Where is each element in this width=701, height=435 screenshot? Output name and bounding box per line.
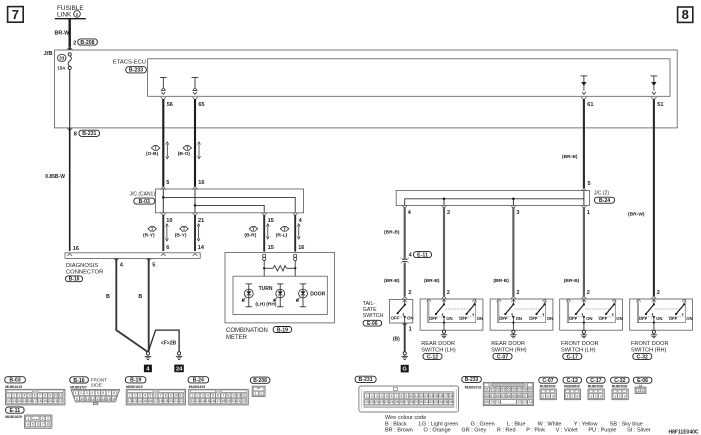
- svg-text:ETACS-ECU: ETACS-ECU: [113, 60, 146, 66]
- svg-text:19: 19: [226, 399, 230, 403]
- svg-text:MU803716: MU803716: [465, 385, 482, 389]
- svg-text:(R-L): (R-L): [276, 233, 288, 239]
- rear door switch LH caption C-12: [421, 341, 456, 360]
- svg-text:2: 2: [371, 394, 373, 398]
- svg-text:67: 67: [523, 394, 527, 398]
- svg-text:16: 16: [298, 245, 304, 251]
- svg-text:9: 9: [233, 394, 235, 398]
- meter pin 16 socket: [294, 254, 297, 257]
- svg-text:33: 33: [59, 56, 65, 62]
- svg-text:REAR DOOR: REAR DOOR: [491, 341, 525, 347]
- svg-text:(B-O): (B-O): [178, 151, 191, 157]
- svg-text:8: 8: [401, 394, 403, 398]
- terminal chevron at J/B entry: [67, 47, 73, 50]
- svg-text:ON: ON: [616, 316, 622, 321]
- svg-text:COMBINATION: COMBINATION: [226, 328, 268, 334]
- diagnosis connector box B-16: [65, 253, 200, 283]
- internal wire pin5-pin10: [162, 189, 164, 213]
- svg-text:20: 20: [370, 400, 374, 404]
- svg-text:BR : Brown O : Orange: BR : Brown O : Orange GR : Grey R : Red …: [385, 428, 651, 434]
- svg-text:15: 15: [434, 394, 438, 398]
- svg-text:B: B: [138, 294, 142, 300]
- svg-text:2: 2: [42, 417, 44, 421]
- svg-text:10: 10: [53, 394, 57, 398]
- wire (BR-B) J/C(2) pin1 to front door switch LH: [564, 207, 584, 296]
- svg-text:10: 10: [237, 394, 241, 398]
- svg-text:21: 21: [375, 400, 379, 404]
- ETACS pin 65 terminal: [192, 97, 204, 108]
- svg-text:10: 10: [409, 394, 413, 398]
- svg-text:11: 11: [414, 394, 418, 398]
- svg-text:13: 13: [12, 399, 16, 403]
- arrow beside wire 15: [267, 226, 269, 237]
- svg-text:68: 68: [529, 394, 533, 398]
- svg-text:13: 13: [133, 399, 137, 403]
- svg-text:C-12: C-12: [427, 354, 438, 360]
- svg-text:13: 13: [424, 394, 428, 398]
- svg-text:1: 1: [542, 394, 544, 398]
- wire (BR-B) E-11 to tailgate switch pin 2: [384, 263, 405, 297]
- svg-text:3: 3: [376, 394, 378, 398]
- svg-text:11: 11: [242, 394, 246, 398]
- svg-text:(B-Y): (B-Y): [175, 233, 187, 239]
- svg-text:70: 70: [490, 400, 494, 404]
- svg-text:72: 72: [517, 400, 521, 404]
- svg-text:73: 73: [523, 400, 527, 404]
- svg-text:16: 16: [211, 399, 215, 403]
- svg-text:FRONT DOOR: FRONT DOOR: [561, 341, 599, 347]
- svg-text:34: 34: [439, 400, 443, 404]
- svg-text:ON: ON: [586, 316, 592, 321]
- svg-text:3: 3: [516, 210, 519, 216]
- svg-text:OFF: OFF: [529, 316, 538, 321]
- svg-text:1: 1: [409, 326, 412, 332]
- svg-text:B-03: B-03: [139, 199, 150, 205]
- svg-text:MU801629: MU801629: [5, 415, 22, 419]
- ETACS internal diode symbol above pin 51: [651, 76, 658, 95]
- svg-text:C-17: C-17: [567, 354, 578, 360]
- twisted symbol (R-Y): [143, 226, 156, 238]
- svg-text:8: 8: [113, 391, 115, 395]
- svg-text:7: 7: [396, 394, 398, 398]
- svg-text:OFF: OFF: [391, 316, 400, 321]
- svg-text:2: 2: [260, 392, 262, 396]
- svg-text:53: 53: [496, 387, 500, 391]
- svg-text:1: 1: [129, 394, 131, 398]
- svg-text:32: 32: [429, 400, 433, 404]
- rear door switch RH box: [490, 296, 553, 330]
- svg-text:18: 18: [38, 399, 42, 403]
- svg-text:(BR-B): (BR-B): [562, 154, 578, 160]
- svg-text:57: 57: [518, 387, 522, 391]
- svg-text:14: 14: [429, 394, 433, 398]
- svg-text:(BR-B): (BR-B): [384, 229, 400, 235]
- svg-text:18: 18: [221, 399, 225, 403]
- svg-text:12: 12: [190, 399, 194, 403]
- svg-text:T: T: [186, 146, 189, 151]
- svg-text:66: 66: [518, 394, 522, 398]
- svg-text:31: 31: [424, 400, 428, 404]
- svg-text:14: 14: [101, 397, 105, 401]
- svg-text:19: 19: [43, 399, 47, 403]
- svg-text:52: 52: [490, 387, 494, 391]
- svg-text:19: 19: [365, 400, 369, 404]
- svg-text:3: 3: [139, 394, 141, 398]
- svg-text:B-19: B-19: [130, 378, 141, 384]
- svg-text:SWITCH (RH): SWITCH (RH): [491, 348, 527, 354]
- svg-text:B-233: B-233: [129, 68, 143, 74]
- svg-text:3: 3: [576, 394, 578, 398]
- svg-text:(BR-B): (BR-B): [564, 278, 580, 284]
- svg-text:17: 17: [33, 399, 37, 403]
- svg-text:MU804539: MU804539: [612, 385, 628, 389]
- svg-text:16: 16: [73, 246, 79, 252]
- svg-text:LINK: LINK: [57, 12, 72, 19]
- wire (BR-B) from ETACS pin 61 to J/C(2) pin 5: [562, 99, 584, 188]
- svg-text:4: 4: [23, 394, 25, 398]
- svg-text:61: 61: [587, 102, 593, 108]
- svg-text:14: 14: [17, 399, 21, 403]
- svg-text:6: 6: [166, 245, 169, 251]
- svg-text:7: 7: [160, 394, 162, 398]
- CAN bus line 1 with junction dot: [162, 196, 295, 213]
- wire (B-R) J/C pin15 to combination meter pin 15: [263, 215, 265, 252]
- svg-text:B-03: B-03: [9, 378, 20, 384]
- combination meter caption and B-19 tag: [226, 327, 292, 341]
- ETACS internal output symbol above pin 56: [160, 77, 167, 94]
- svg-text:2: 2: [595, 394, 597, 398]
- turn indicator LED (RH): [274, 284, 285, 307]
- svg-text:T: T: [151, 226, 154, 231]
- svg-text:4: 4: [381, 394, 383, 398]
- svg-text:15: 15: [107, 397, 111, 401]
- svg-text:C-07: C-07: [542, 378, 553, 384]
- terminal chevron at J/B exit pin 8: [67, 128, 73, 131]
- tailgate pin 1 exit: [402, 323, 411, 332]
- svg-text:64: 64: [507, 394, 511, 398]
- wire 0.85B-W from J/B to diagnosis connector pin 16: [45, 128, 69, 251]
- svg-text:MU804539: MU804539: [588, 385, 604, 389]
- svg-text:71: 71: [496, 400, 500, 404]
- svg-text:5: 5: [97, 391, 99, 395]
- svg-text:MU803707: MU803707: [70, 386, 87, 390]
- svg-text:23: 23: [385, 400, 389, 404]
- junction connector J/C(CAN1) box B-03: [129, 189, 303, 213]
- svg-text:MU801615: MU801615: [5, 385, 22, 389]
- svg-text:51: 51: [657, 102, 663, 108]
- svg-text:B-24: B-24: [599, 198, 610, 204]
- svg-text:10: 10: [80, 397, 84, 401]
- svg-text:7: 7: [12, 7, 19, 22]
- svg-text:2: 2: [516, 290, 519, 296]
- svg-text:SWITCH (LH): SWITCH (LH): [561, 348, 596, 354]
- svg-text:11: 11: [179, 394, 183, 398]
- svg-text:E-11: E-11: [417, 252, 428, 258]
- wire (BR-W) from ETACS pin 51 to front door switch RH: [628, 99, 654, 296]
- svg-text:5: 5: [29, 394, 31, 398]
- ETACS pin 51 terminal: [651, 97, 663, 108]
- svg-text:7: 7: [39, 394, 41, 398]
- svg-text:J/B: J/B: [44, 51, 53, 57]
- svg-text:17: 17: [153, 399, 157, 403]
- wire <F>2B to ground 24: [149, 330, 180, 352]
- svg-text:B-208: B-208: [80, 40, 94, 46]
- svg-text:25: 25: [395, 400, 399, 404]
- rear door switch RH caption C-07: [491, 341, 527, 360]
- svg-text:16: 16: [198, 180, 204, 186]
- ETACS pin 56 terminal: [161, 97, 173, 108]
- svg-text:2: 2: [447, 290, 450, 296]
- connector diagram B-208: [250, 377, 270, 397]
- svg-text:14: 14: [198, 245, 205, 251]
- wire (BR-B) J/C(2) pin4 to E-11: [384, 207, 405, 259]
- svg-text:E-06: E-06: [367, 321, 378, 327]
- svg-text:1: 1: [587, 210, 590, 216]
- svg-text:B-19: B-19: [277, 327, 288, 333]
- svg-text:17: 17: [444, 394, 448, 398]
- svg-text:15: 15: [268, 218, 274, 224]
- meter internal wires: [263, 261, 265, 277]
- svg-text:<F>2B: <F>2B: [161, 340, 177, 346]
- svg-text:60: 60: [485, 394, 489, 398]
- svg-text:2: 2: [642, 389, 644, 393]
- svg-text:1: 1: [590, 394, 592, 398]
- svg-text:20: 20: [48, 399, 52, 403]
- ETACS internal diode symbol above pin 61: [581, 76, 588, 95]
- direction arrow beside wire 65: [198, 144, 200, 156]
- svg-text:OFF: OFF: [499, 316, 508, 321]
- svg-text:24: 24: [390, 400, 394, 404]
- ETACS internal output symbol above pin 65: [192, 77, 199, 94]
- svg-text:13: 13: [195, 399, 199, 403]
- turn indicator LED (LH): [242, 284, 253, 307]
- wire B from diagnosis pin 5 to ground: [138, 258, 148, 351]
- svg-text:Wire colour code: Wire colour code: [385, 415, 426, 421]
- svg-text:DIAGNOSIS: DIAGNOSIS: [66, 263, 98, 269]
- svg-text:H8F11E040C: H8F11E040C: [668, 429, 698, 435]
- svg-text:T: T: [252, 226, 255, 231]
- svg-text:21: 21: [53, 399, 57, 403]
- svg-text:2: 2: [134, 394, 136, 398]
- svg-text:MU804539: MU804539: [540, 385, 556, 389]
- svg-text:5: 5: [32, 422, 34, 426]
- svg-text:(B-R): (B-R): [244, 233, 256, 239]
- svg-text:MU801615: MU801615: [189, 385, 206, 389]
- front door switch RH ground: [652, 330, 655, 333]
- svg-text:14: 14: [201, 399, 205, 403]
- svg-text:12: 12: [419, 394, 423, 398]
- svg-text:8: 8: [44, 394, 46, 398]
- svg-text:TURN: TURN: [259, 286, 273, 292]
- connector diagram C-12: [563, 377, 582, 400]
- arrow beside wire 4: [298, 226, 300, 237]
- svg-text:12: 12: [7, 399, 11, 403]
- svg-text:T: T: [154, 146, 157, 151]
- twisted symbol (B-R): [244, 226, 257, 238]
- svg-text:63: 63: [501, 394, 505, 398]
- svg-text:21: 21: [198, 218, 204, 224]
- svg-text:8: 8: [47, 422, 49, 426]
- svg-text:18: 18: [449, 394, 453, 398]
- svg-text:FRONT DOOR: FRONT DOOR: [631, 341, 669, 347]
- svg-text:6: 6: [391, 394, 393, 398]
- combination meter outer box: [225, 252, 334, 323]
- svg-text:4: 4: [91, 391, 93, 395]
- svg-text:15A: 15A: [57, 66, 66, 71]
- svg-text:18: 18: [159, 399, 163, 403]
- inline connector E-11 pin 4: [401, 252, 432, 264]
- svg-text:(LH) (RH): (LH) (RH): [255, 301, 276, 307]
- svg-text:20: 20: [169, 399, 173, 403]
- svg-text:SIDE: SIDE: [91, 383, 102, 389]
- ETACS pin 61 terminal: [581, 97, 593, 108]
- svg-text:16: 16: [112, 397, 116, 401]
- front door switch LH ground: [582, 330, 585, 333]
- entry chevron J/C(2) pin 5: [582, 188, 587, 191]
- svg-text:13: 13: [96, 397, 100, 401]
- fuse 33 15A: [57, 53, 71, 71]
- tailgate switch box E-06: [389, 297, 413, 323]
- svg-text:24: 24: [176, 366, 183, 372]
- svg-text:(BR-B): (BR-B): [424, 278, 440, 284]
- wire BR-W from fusible link to J/B: [55, 19, 71, 50]
- svg-text:ON: ON: [477, 316, 483, 321]
- svg-text:3: 3: [552, 394, 554, 398]
- svg-text:7: 7: [108, 391, 110, 395]
- svg-text:ON: ON: [407, 316, 413, 321]
- svg-text:62: 62: [496, 394, 500, 398]
- door indicator LED: [296, 284, 307, 307]
- svg-text:REAR DOOR: REAR DOOR: [421, 341, 455, 347]
- svg-text:ON: ON: [656, 316, 662, 321]
- svg-text:E-06: E-06: [637, 378, 648, 384]
- svg-text:11: 11: [59, 394, 63, 398]
- svg-text:16: 16: [148, 399, 152, 403]
- svg-text:9: 9: [76, 397, 78, 401]
- meter pin 15 socket: [263, 254, 266, 257]
- svg-text:2: 2: [408, 290, 411, 296]
- svg-text:7: 7: [42, 422, 44, 426]
- exit chevrons below J/C(2): [402, 206, 407, 209]
- svg-text:B-231: B-231: [359, 377, 373, 383]
- svg-text:22: 22: [380, 400, 384, 404]
- svg-text:36: 36: [449, 400, 453, 404]
- svg-text:J/C (2): J/C (2): [594, 191, 609, 197]
- front door switch RH caption C-32: [631, 341, 669, 360]
- wire from fuse to J/B bottom: [69, 70, 71, 128]
- svg-text:3: 3: [202, 394, 204, 398]
- twisted symbol (B-Y): [175, 226, 188, 238]
- svg-text:56: 56: [512, 387, 516, 391]
- svg-text:3: 3: [18, 394, 20, 398]
- connector diagram B-233: [462, 376, 534, 405]
- twisted symbol (R-L): [276, 226, 289, 238]
- svg-text:(BR-B): (BR-B): [384, 278, 400, 284]
- svg-text:14: 14: [138, 399, 142, 403]
- svg-text:7: 7: [222, 394, 224, 398]
- svg-text:1: 1: [366, 394, 368, 398]
- svg-text:9: 9: [49, 394, 51, 398]
- svg-text:2: 2: [571, 394, 573, 398]
- svg-text:19: 19: [164, 399, 168, 403]
- svg-text:SWITCH (RH): SWITCH (RH): [631, 348, 667, 354]
- ground symbol 4: [144, 352, 152, 373]
- svg-text:6: 6: [154, 394, 156, 398]
- svg-text:51: 51: [485, 387, 489, 391]
- svg-text:1: 1: [637, 389, 639, 393]
- svg-text:T: T: [283, 226, 286, 231]
- svg-text:SWITCH: SWITCH: [363, 313, 384, 319]
- svg-text:OFF: OFF: [569, 316, 578, 321]
- svg-text:B : Black LG : Light gr: B : Black LG : Light green G : Green L :…: [385, 421, 643, 427]
- svg-text:OFF: OFF: [669, 316, 678, 321]
- svg-text:9: 9: [405, 394, 407, 398]
- svg-text:26: 26: [400, 400, 404, 404]
- svg-text:SWITCH (LH): SWITCH (LH): [421, 348, 456, 354]
- meter inner board box: [233, 276, 327, 314]
- svg-text:OFF: OFF: [459, 316, 468, 321]
- svg-text:E-11: E-11: [9, 408, 20, 414]
- svg-text:15: 15: [143, 399, 147, 403]
- internal wire pin16-pin21: [194, 189, 196, 213]
- connector diagram B-19: [125, 377, 185, 405]
- front door switch LH box: [560, 296, 623, 330]
- wire (BR-B) J/C(2) pin3 to rear door switch RH: [493, 207, 513, 296]
- wire B from diagnosis pin 4 to ground: [106, 258, 147, 351]
- svg-text:C-12: C-12: [567, 378, 578, 384]
- wire (O-B) from pin 56 to J/C(CAN1) pin 5: [162, 99, 164, 187]
- svg-text:1: 1: [75, 391, 77, 395]
- fusible link label: [57, 5, 84, 19]
- wire (B-Y) J/C pin21 to diagnosis pin 14: [194, 215, 196, 251]
- connector diagram B-03: [5, 377, 65, 405]
- svg-text:16: 16: [28, 399, 32, 403]
- svg-text:1: 1: [567, 394, 569, 398]
- svg-text:15: 15: [268, 245, 274, 251]
- page number 8 box: [678, 7, 693, 22]
- svg-text:35: 35: [444, 400, 448, 404]
- svg-text:3: 3: [86, 391, 88, 395]
- tailgate switch caption E-06: [363, 301, 384, 327]
- svg-text:B-16: B-16: [73, 378, 84, 384]
- connector diagram C-07: [539, 377, 558, 400]
- svg-text:METER: METER: [226, 335, 248, 341]
- direction arrow beside wire 56: [166, 144, 168, 156]
- svg-text:2: 2: [547, 394, 549, 398]
- svg-text:G: G: [403, 367, 407, 373]
- svg-text:1: 1: [8, 394, 10, 398]
- svg-text:B-24: B-24: [193, 378, 204, 384]
- svg-text:56: 56: [167, 102, 173, 108]
- svg-text:54: 54: [501, 387, 505, 391]
- svg-text:(O-B): (O-B): [146, 151, 159, 157]
- junction block J/B box: [44, 50, 678, 128]
- diagnosis connector top entry chevrons: [67, 254, 72, 256]
- fusible link bus bar: [55, 18, 86, 20]
- connector diagram B-16 with trapezoid body: [70, 377, 120, 405]
- svg-text:8: 8: [682, 7, 689, 22]
- svg-text:65: 65: [512, 394, 516, 398]
- svg-text:ON: ON: [446, 316, 452, 321]
- svg-text:1: 1: [614, 394, 616, 398]
- svg-text:2: 2: [80, 391, 82, 395]
- svg-text:8: 8: [165, 394, 167, 398]
- svg-text:22: 22: [179, 399, 183, 403]
- svg-text:6: 6: [217, 394, 219, 398]
- svg-text:B-208: B-208: [253, 378, 267, 384]
- svg-text:6: 6: [76, 12, 79, 18]
- svg-text:B-231: B-231: [82, 131, 96, 137]
